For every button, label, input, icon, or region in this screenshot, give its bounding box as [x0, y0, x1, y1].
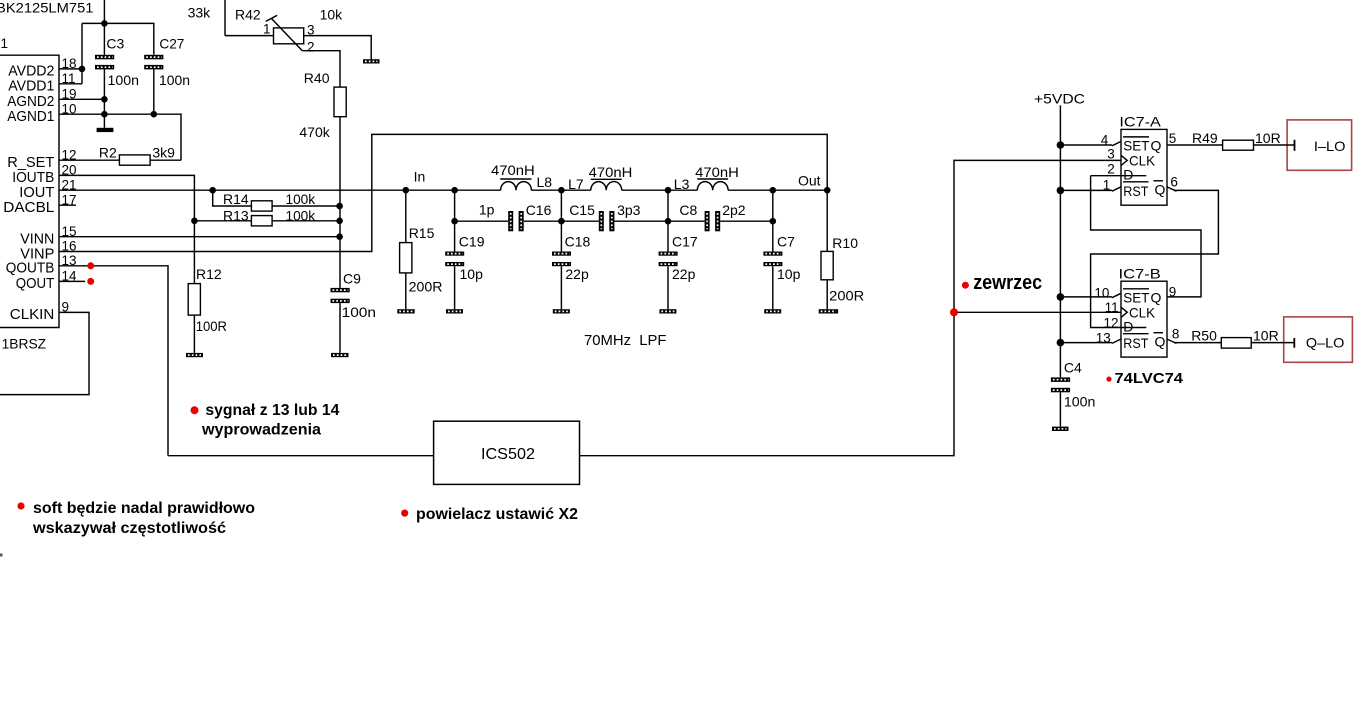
svg-text:AVDD1: AVDD1 [8, 78, 54, 95]
svg-text:2p2: 2p2 [722, 202, 746, 218]
svg-text:Q: Q [1155, 333, 1166, 349]
svg-text:13: 13 [1096, 331, 1111, 346]
svg-text:soft będzie nadal prawidłowo: soft będzie nadal prawidłowo [33, 500, 255, 517]
svg-text:R40: R40 [304, 70, 330, 86]
svg-text:10R: 10R [1253, 327, 1279, 343]
svg-text:10k: 10k [320, 7, 344, 23]
svg-text:Q: Q [1151, 289, 1162, 305]
svg-text:C27: C27 [159, 36, 184, 52]
svg-text:R2: R2 [99, 145, 117, 161]
svg-text:D: D [1123, 318, 1133, 334]
svg-text:1: 1 [1, 36, 9, 51]
svg-text:470nH: 470nH [491, 162, 535, 178]
svg-text:4: 4 [1101, 132, 1109, 147]
svg-text:33k: 33k [188, 5, 212, 21]
svg-text:5: 5 [1169, 131, 1177, 146]
svg-text:C18: C18 [565, 234, 591, 250]
svg-text:16: 16 [62, 239, 77, 254]
svg-text:R49: R49 [1192, 130, 1218, 146]
svg-text:100n: 100n [159, 72, 190, 88]
svg-text:D: D [1123, 166, 1133, 182]
svg-text:3p3: 3p3 [617, 202, 641, 218]
svg-text:1: 1 [1103, 178, 1111, 193]
svg-text:+5VDC: +5VDC [1034, 91, 1085, 107]
svg-text:17: 17 [62, 192, 77, 207]
svg-text:IC7-A: IC7-A [1119, 113, 1161, 129]
svg-text:In: In [414, 169, 426, 185]
svg-text:100k: 100k [286, 208, 317, 224]
svg-text:100n: 100n [342, 304, 376, 320]
svg-text:100R: 100R [196, 318, 227, 334]
svg-text:SET: SET [1123, 137, 1149, 153]
svg-text:74LVC74: 74LVC74 [1115, 370, 1184, 387]
svg-text:9: 9 [1169, 285, 1177, 300]
svg-text:10p: 10p [777, 266, 801, 282]
svg-text:1BRSZ: 1BRSZ [2, 336, 47, 352]
svg-text:R12: R12 [196, 266, 222, 282]
svg-text:12: 12 [1104, 316, 1119, 331]
svg-text:1: 1 [263, 22, 271, 37]
svg-text:C15: C15 [569, 202, 595, 218]
svg-text:10p: 10p [460, 266, 484, 282]
svg-text:100k: 100k [286, 191, 317, 207]
svg-text:Q–LO: Q–LO [1306, 334, 1345, 350]
svg-text:10R: 10R [1255, 130, 1281, 146]
svg-text:C8: C8 [679, 202, 697, 218]
svg-text:ICS502: ICS502 [481, 446, 535, 463]
svg-text:13: 13 [62, 253, 77, 268]
svg-text:C16: C16 [526, 202, 552, 218]
svg-text:R42: R42 [235, 7, 261, 23]
svg-text:R50: R50 [1191, 327, 1217, 343]
svg-text:BK2125LM751: BK2125LM751 [0, 1, 94, 16]
svg-text:C19: C19 [459, 234, 485, 250]
svg-text:C17: C17 [672, 234, 698, 250]
svg-text:15: 15 [62, 224, 77, 239]
svg-text:SET: SET [1123, 289, 1149, 305]
svg-text:21: 21 [62, 177, 77, 192]
svg-text:470k: 470k [299, 124, 330, 140]
svg-text:R14: R14 [223, 191, 249, 207]
svg-text:9: 9 [62, 300, 70, 315]
svg-text:8: 8 [1172, 326, 1180, 341]
svg-text:C3: C3 [106, 36, 124, 52]
svg-text:200R: 200R [409, 279, 443, 295]
svg-text:RST: RST [1123, 183, 1149, 199]
svg-text:3: 3 [307, 23, 315, 38]
svg-text:DACBL: DACBL [3, 199, 54, 216]
svg-text:wskazywał częstotliwość: wskazywał częstotliwość [32, 520, 226, 537]
svg-text:3k9: 3k9 [152, 145, 175, 161]
svg-text:I–LO: I–LO [1314, 138, 1346, 154]
svg-text:22p: 22p [565, 266, 589, 282]
svg-text:470nH: 470nH [589, 164, 633, 180]
svg-text:2: 2 [307, 40, 315, 55]
svg-text:R10: R10 [832, 235, 858, 251]
svg-text:11: 11 [62, 71, 76, 86]
svg-text:QOUT: QOUT [16, 275, 55, 292]
svg-text:AGND1: AGND1 [7, 108, 54, 125]
svg-text:19: 19 [62, 86, 77, 101]
svg-text:wyprowadzenia: wyprowadzenia [201, 421, 321, 438]
svg-text:L3: L3 [674, 176, 690, 192]
svg-text:powielacz ustawić X2: powielacz ustawić X2 [416, 506, 578, 523]
svg-text:22p: 22p [672, 266, 696, 282]
svg-text:6: 6 [1170, 174, 1178, 189]
svg-text:L7: L7 [568, 176, 584, 192]
svg-text:1p: 1p [479, 201, 495, 217]
svg-text:R13: R13 [223, 208, 249, 224]
svg-text:L8: L8 [537, 174, 553, 190]
svg-text:Q: Q [1151, 137, 1162, 153]
svg-text:sygnał z 13 lub 14: sygnał z 13 lub 14 [205, 402, 339, 419]
svg-text:zewrzec: zewrzec [973, 272, 1042, 294]
svg-text:12: 12 [62, 147, 77, 162]
svg-text:20: 20 [62, 163, 77, 178]
svg-text:14: 14 [62, 269, 78, 284]
svg-text:IC7-B: IC7-B [1119, 265, 1161, 281]
svg-text:Q: Q [1155, 181, 1166, 197]
svg-text:Out: Out [798, 173, 821, 189]
svg-text:3: 3 [1107, 146, 1115, 161]
svg-text:18: 18 [62, 56, 77, 71]
svg-text:RST: RST [1123, 335, 1149, 351]
svg-text:QOUTB: QOUTB [6, 260, 55, 277]
svg-text:470nH: 470nH [695, 164, 739, 180]
svg-text:100n: 100n [108, 72, 140, 88]
svg-text:C4: C4 [1064, 359, 1082, 375]
svg-text:200R: 200R [829, 288, 864, 304]
svg-text:CLKIN: CLKIN [10, 306, 54, 323]
svg-text:2: 2 [1107, 161, 1115, 176]
svg-text:C9: C9 [343, 271, 361, 287]
svg-text:C7: C7 [777, 234, 795, 250]
svg-text:70MHz LPF: 70MHz LPF [584, 332, 667, 349]
svg-text:100n: 100n [1064, 394, 1096, 410]
svg-text:10: 10 [62, 101, 77, 116]
svg-text:R15: R15 [409, 225, 435, 241]
svg-text:11: 11 [1105, 300, 1119, 315]
svg-text:10: 10 [1094, 285, 1109, 300]
